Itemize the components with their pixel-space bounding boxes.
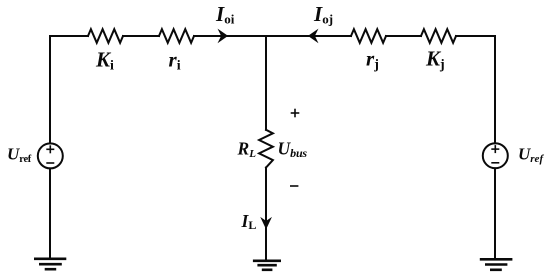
voltage source U1 (left Uref) circle <box>38 143 63 168</box>
resistor RL vertical <box>259 130 273 168</box>
svg-text:Ki: Ki <box>95 48 114 74</box>
minus sign inside left source <box>46 162 54 164</box>
wire between Ki and ri <box>123 35 159 37</box>
ground right <box>480 259 513 270</box>
wire left vertical lower <box>49 168 51 258</box>
wire center vertical lower <box>265 168 267 261</box>
wire center node to rj <box>266 35 351 37</box>
svg-text:Ioj: Ioj <box>313 2 333 27</box>
wire right vertical upper <box>494 36 496 143</box>
arrowhead Ioi (right pointing) <box>219 30 227 41</box>
minus sign below Ubus <box>290 185 298 187</box>
svg-text:Uref: Uref <box>7 145 32 166</box>
minus sign inside right source <box>491 162 499 164</box>
resistor R3 (rj) <box>351 29 386 43</box>
resistor R2 (ri) <box>159 29 194 43</box>
svg-text:Kj: Kj <box>425 47 445 73</box>
svg-text:Ioi: Ioi <box>215 2 235 27</box>
plus sign above Ubus <box>291 109 300 118</box>
wire right vertical lower <box>494 168 496 259</box>
svg-text:RL: RL <box>237 139 257 160</box>
wire between rj and Kj <box>386 35 421 37</box>
wire top-left horizontal <box>50 35 88 37</box>
wire center vertical upper <box>265 36 267 130</box>
svg-text:ri: ri <box>169 48 181 74</box>
ground center <box>253 261 281 270</box>
plus sign inside left source <box>46 145 54 153</box>
wire Kj to right corner <box>456 35 495 37</box>
arrowhead Ioj (left pointing) <box>309 30 317 41</box>
resistor K2 (Kj) <box>421 29 456 43</box>
plus sign inside right source <box>491 145 499 153</box>
ground left <box>34 259 66 269</box>
svg-text:Ubus: Ubus <box>278 139 308 160</box>
svg-text:IL: IL <box>241 211 257 232</box>
wire left vertical upper <box>49 36 51 143</box>
voltage source U2 (right Uref) circle <box>483 143 508 168</box>
wire ri to center node <box>194 35 266 37</box>
svg-text:Uref: Uref <box>518 145 544 166</box>
svg-text:rj: rj <box>366 47 379 73</box>
arrowhead IL (down pointing) <box>262 219 271 228</box>
resistor K1 (Ki) <box>88 29 123 43</box>
